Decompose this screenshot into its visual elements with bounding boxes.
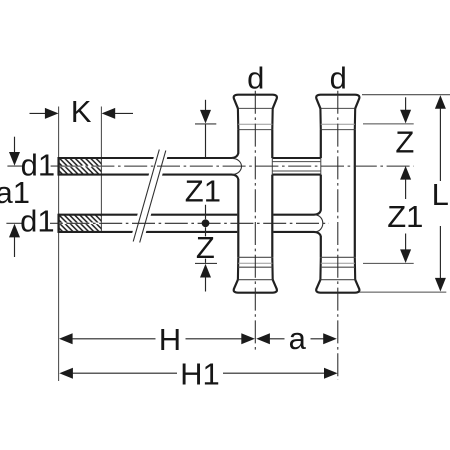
column 2 top socket (press fitting mouth) (316, 95, 359, 109)
dimension K arrows (30, 112, 46, 114)
column 2 top socket lip line (320, 107, 355, 109)
column 2 left edge thin section at connector (320, 158, 322, 175)
svg-text:d: d (247, 60, 264, 95)
column 1 body left edge (with branch mouth gap) (237, 130, 239, 258)
column 2 bottom socket bead line 2 (321, 266, 355, 268)
column 2 bottom socket (press fitting mouth) (316, 280, 359, 293)
dimension L: bottom arrow (down) (439, 226, 441, 279)
hatch block pipe2 (insertion depth K) (59, 215, 102, 224)
column 2 top socket bead line faint (321, 123, 355, 125)
column 1 bottom socket (press fitting mouth) (234, 280, 277, 293)
column 1 top socket lip line (238, 107, 273, 109)
column 1 bottom socket bead line faint (238, 262, 272, 264)
svg-text:a: a (289, 321, 307, 356)
svg-text:Z1: Z1 (387, 199, 423, 234)
tick Z lower left (y=263.4) (195, 262, 217, 264)
centerline column 1 (254, 91, 256, 352)
column 1 bottom socket lip line (238, 279, 273, 281)
extension line Z1 lower (y=263.4 right) (363, 262, 414, 264)
hatch block pipe1 (insertion depth K) (59, 158, 102, 166)
centerline pipe 1 (59, 165, 414, 167)
column 1 right edge thin section at connector (271, 158, 273, 175)
centerline column 2 (337, 91, 339, 380)
extension line K right (x=101.4) (100, 107, 102, 232)
column 2 bottom socket sides (320, 257, 355, 279)
dimension chain Z1/Z left: line segments (205, 125, 207, 263)
column 2 bottom socket bead line faint (321, 262, 355, 264)
dimension chain Z1/Z left: top arrow (down) (205, 100, 207, 111)
svg-text:K: K (71, 94, 92, 129)
dimension chain junction dot (202, 219, 210, 227)
d1 lower leader (6, 222, 57, 224)
svg-text:L: L (432, 177, 449, 212)
dimension d1/a1 lower arrow (up) (14, 237, 16, 257)
column 1 left branch mouth arc (233, 158, 242, 174)
column 1 top socket bead line faint (238, 123, 272, 125)
column 1 top socket sides (238, 108, 273, 129)
centerline pipe 2 (59, 222, 329, 224)
svg-text:Z: Z (196, 230, 215, 265)
column 1 body right edge (271, 130, 273, 258)
column 1 bottom socket bead line 2 (238, 266, 272, 268)
dimension chain Z1/Z left: bottom arrow (up) (200, 264, 211, 278)
column 2 top socket bead line (321, 129, 355, 131)
extension line Z upper (y=123.9 right) (363, 123, 414, 125)
extension line left (x=58.6, K/H/H1 datum) (58, 107, 60, 382)
svg-text:H: H (159, 322, 181, 357)
column 2 bottom socket bead line (321, 256, 355, 258)
tick Z1 upper left (y=123.9) (195, 123, 216, 125)
dimension Z1 right: bottom arrow (down) (405, 234, 407, 251)
connector tube inner wall lines (272, 162, 321, 171)
dimension H line and arrows (59, 333, 73, 344)
dimension Z1 right: top arrow (up) (400, 166, 411, 180)
svg-text:Z: Z (395, 124, 414, 159)
svg-text:Z1: Z1 (185, 173, 221, 208)
column 2 top socket sides (320, 108, 355, 129)
pipe break marks (interrupted length) (133, 150, 166, 243)
hatch centerline white gaps (59, 166, 102, 223)
column 2 body right edge (354, 130, 356, 258)
svg-text:H1: H1 (180, 356, 220, 391)
dimension a line and arrows (256, 333, 270, 344)
extension line bottom fitting end (y=291.9) (356, 291, 446, 293)
column 2 bottom socket lip line (320, 279, 355, 281)
pipe 1 left end cap (57, 157, 59, 176)
dimension d1/a1 upper arrow (down) (14, 137, 16, 154)
connector tube between columns (upper level) (272, 158, 321, 175)
column 1 bottom socket bead line (238, 256, 272, 258)
column 2 lower branch mouth arc (315, 215, 323, 232)
column 1 top socket bead line (238, 129, 272, 131)
column 1 bottom socket sides (238, 257, 273, 279)
pipe 1 (upper horizontal pipe d1) (59, 153, 239, 179)
dimension H1 line and arrows (59, 368, 73, 379)
pipe 2 left end cap (57, 214, 59, 233)
dimension L: top arrow (up) (435, 95, 446, 109)
svg-text:d: d (330, 60, 347, 95)
column 2 body left edge (with lower branch mouth gap) (320, 130, 322, 258)
d1 upper leader (7, 165, 57, 167)
pipe 2 (lower horizontal pipe d1, hidden behind column 1) (59, 210, 321, 236)
dimension Z right: top arrow (down) (405, 97, 407, 111)
column 1 top socket (press fitting mouth) (234, 95, 277, 109)
extension line top fitting end (y=94.7) (362, 94, 450, 96)
svg-text:d1: d1 (20, 204, 54, 239)
